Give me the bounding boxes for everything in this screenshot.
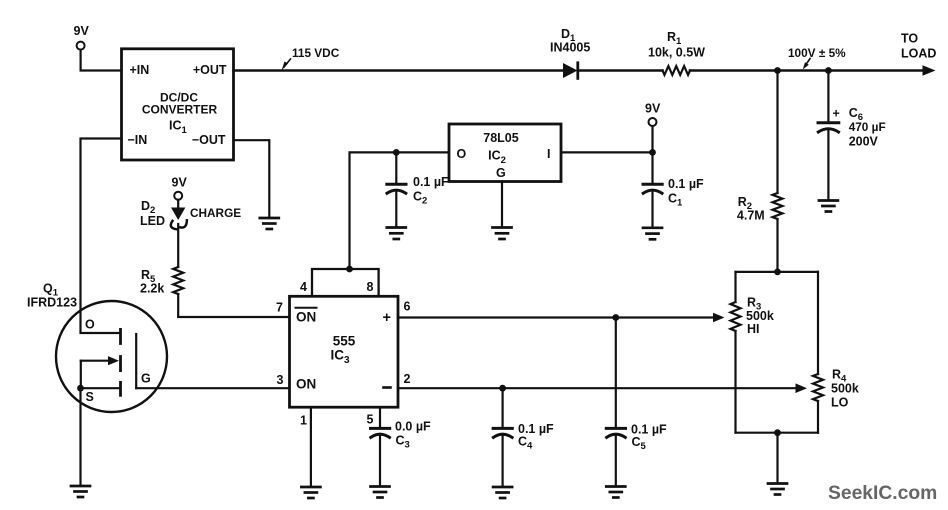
- wire 555 pin1 to ground: [310, 407, 312, 486]
- svg-text:0.1 µF: 0.1 µF: [668, 177, 704, 191]
- capacitor C3 0.0uF: [371, 420, 432, 451]
- 555 timer IC3: [276, 266, 411, 428]
- pot network top bar: [736, 271, 819, 273]
- svg-text:HI: HI: [747, 322, 760, 336]
- ground under pin1: [301, 487, 320, 498]
- svg-text:5: 5: [367, 413, 374, 427]
- svg-text:LOAD: LOAD: [901, 47, 936, 61]
- drain bar: [119, 329, 122, 343]
- capacitor C4 0.1uF: [493, 422, 554, 452]
- capacitor C1 0.1uF: [643, 177, 704, 209]
- wire 555 pin2 to R4 arrow: [398, 387, 797, 389]
- wire 9V to +IN of IC1: [81, 50, 122, 71]
- svg-text:500k: 500k: [831, 382, 859, 396]
- svg-text:2.2k: 2.2k: [140, 282, 164, 296]
- wire IC1 -OUT to ground: [234, 140, 270, 217]
- node junction 9V/C1: [649, 149, 656, 156]
- 100V +/-5% label with arrow: [788, 46, 846, 70]
- arrowhead to load: [923, 65, 936, 76]
- 9V supply terminal middle: [645, 102, 661, 127]
- transistor Q1 IFRD123: [27, 282, 167, 413]
- svg-text:7: 7: [276, 301, 283, 315]
- svg-text:TO: TO: [901, 32, 918, 46]
- wire IC2 G pin to ground: [501, 182, 503, 227]
- wire D1 to R1: [578, 69, 663, 72]
- svg-text:I: I: [547, 147, 550, 161]
- svg-text:CHARGE: CHARGE: [190, 206, 241, 220]
- node junction R2 bottom: [774, 269, 781, 276]
- svg-text:SeekIC.com: SeekIC.com: [828, 483, 937, 504]
- svg-text:+: +: [833, 107, 840, 121]
- channel plate: [135, 334, 137, 388]
- TO LOAD label: [901, 32, 936, 61]
- wire R3 to bottom bar: [734, 331, 736, 433]
- wire R2 to pot network top: [776, 219, 778, 272]
- pot network bottom bar: [736, 432, 819, 434]
- wire C5 to ground: [615, 436, 617, 486]
- svg-text:ON: ON: [296, 377, 316, 392]
- diode D1 IN4005: [550, 27, 590, 78]
- wire Q1 source to ground: [79, 388, 81, 485]
- svg-text:LO: LO: [831, 396, 849, 410]
- resistor R2 4.7M: [737, 193, 783, 223]
- middle bar: [119, 357, 122, 371]
- resistor R3 500k HI: [731, 296, 774, 337]
- ground under C6: [819, 201, 838, 212]
- wire IC2 I pin to 9V node: [561, 151, 653, 153]
- svg-text:3: 3: [277, 373, 284, 387]
- svg-text:555: 555: [333, 334, 356, 349]
- wire C2: [395, 152, 397, 183]
- capacitor C2 0.1uF: [387, 175, 449, 207]
- 115 VDC label with arrow: [282, 46, 340, 71]
- arrowhead into R3: [713, 313, 725, 323]
- svg-text:G: G: [141, 372, 151, 386]
- wire C1 to ground: [651, 192, 653, 227]
- svg-text:100V ± 5%: 100V ± 5%: [788, 46, 846, 60]
- wire 555 pin5 to C3: [379, 407, 381, 427]
- resistor R5 2.2k: [140, 267, 183, 296]
- gate arrow line: [81, 360, 109, 362]
- svg-text:+: +: [383, 310, 391, 326]
- node junction C4 tap: [499, 385, 506, 392]
- svg-text:+OUT: +OUT: [193, 63, 227, 77]
- wire rail to R2: [776, 71, 778, 194]
- ground under Q1: [71, 486, 90, 497]
- svg-text:+IN: +IN: [130, 63, 150, 77]
- wire C3 to ground: [379, 436, 381, 486]
- wire R5 to 555 pin7: [178, 294, 289, 317]
- svg-text:−OUT: −OUT: [192, 133, 226, 147]
- wire IC1 -IN down to Q1 drain: [81, 139, 122, 334]
- 9V supply terminal top-left: [74, 24, 90, 50]
- right branch wire to R4: [817, 272, 819, 374]
- ground under IC2 G: [493, 228, 512, 240]
- wire C6 to ground: [827, 131, 829, 200]
- source line: [81, 387, 120, 389]
- svg-text:10k, 0.5W: 10k, 0.5W: [648, 46, 705, 60]
- svg-text:78L05: 78L05: [483, 131, 518, 145]
- arrowhead into R4: [796, 383, 808, 393]
- wire R4 to bottom bar: [817, 401, 819, 433]
- svg-text:500k: 500k: [746, 309, 774, 323]
- svg-text:IFRD123: IFRD123: [27, 296, 77, 310]
- svg-text:O: O: [457, 147, 467, 161]
- svg-text:115 VDC: 115 VDC: [292, 46, 340, 60]
- 78L05 regulator IC2: [449, 124, 561, 182]
- svg-text:9V: 9V: [172, 176, 188, 190]
- wire +OUT rail to D1 anode: [234, 69, 564, 72]
- svg-text:8: 8: [367, 280, 374, 294]
- capacitor C6 470uF 200V: [818, 106, 886, 149]
- left branch wire to R3: [734, 272, 736, 302]
- wire IC2 O pin to left and down to 555 supply bracket: [350, 152, 450, 269]
- arrow line down to source node: [80, 361, 82, 389]
- svg-text:6: 6: [404, 300, 411, 314]
- wire C4 from pin2 line: [502, 388, 504, 427]
- wire node to C1: [651, 152, 653, 183]
- svg-text:−IN: −IN: [128, 133, 148, 147]
- svg-text:1: 1: [300, 414, 307, 428]
- svg-text:S: S: [86, 390, 94, 404]
- svg-text:0.0 µF: 0.0 µF: [395, 420, 431, 434]
- wire 555 pin6 to R3 arrow: [398, 316, 714, 318]
- ground under C1: [643, 228, 662, 240]
- svg-text:9V: 9V: [74, 24, 90, 38]
- source bar: [119, 382, 122, 395]
- wire rail to C6: [827, 71, 829, 122]
- wire C5 from pin6 line down crossing pin2 line: [615, 318, 617, 428]
- wire 9V to D2: [177, 200, 179, 208]
- ground under pot network: [768, 484, 787, 495]
- svg-text:O: O: [85, 318, 95, 332]
- svg-text:2: 2: [404, 372, 411, 386]
- node junction rail/C6: [825, 67, 832, 74]
- 9V supply terminal for LED branch: [172, 176, 188, 200]
- resistor R4 500k LO: [813, 368, 859, 410]
- svg-text:LED: LED: [140, 214, 165, 228]
- wire C4 to ground: [502, 436, 504, 486]
- svg-text:4.7M: 4.7M: [737, 209, 765, 223]
- node junction C2 tap: [393, 149, 400, 156]
- svg-text:4: 4: [300, 280, 307, 294]
- svg-text:0.1 µF: 0.1 µF: [413, 175, 449, 189]
- wire Q1 gate to 555 pin3: [136, 387, 289, 389]
- wire bottom bar to ground: [776, 433, 778, 483]
- node junction source: [77, 385, 84, 392]
- LED D2 CHARGE: [140, 199, 241, 229]
- node junction C5 tap: [612, 314, 619, 321]
- node junction rail/R2: [774, 67, 781, 74]
- svg-text:9V: 9V: [645, 102, 661, 116]
- ground under C3: [371, 487, 390, 498]
- node junction bottom: [774, 429, 781, 436]
- svg-text:G: G: [496, 166, 506, 180]
- resistor R1 10k 0.5W: [648, 30, 705, 75]
- svg-text:CONVERTER: CONVERTER: [142, 103, 218, 117]
- capacitor C5 0.1uF: [606, 423, 667, 453]
- svg-text:IN4005: IN4005: [550, 41, 590, 55]
- ground under C4: [493, 487, 512, 498]
- svg-text:470 µF: 470 µF: [849, 120, 886, 134]
- svg-text:200V: 200V: [849, 135, 879, 149]
- wire D2 to R5: [177, 224, 179, 267]
- DC/DC converter IC1: [122, 49, 234, 160]
- wire 9V to node: [651, 126, 653, 152]
- wire R1 to load arrow: [690, 69, 923, 72]
- ground under C2: [387, 228, 406, 240]
- ground under -OUT: [260, 218, 279, 229]
- wire C2 to ground: [395, 192, 397, 227]
- ground under C5: [606, 487, 625, 498]
- svg-text:ON: ON: [296, 310, 316, 325]
